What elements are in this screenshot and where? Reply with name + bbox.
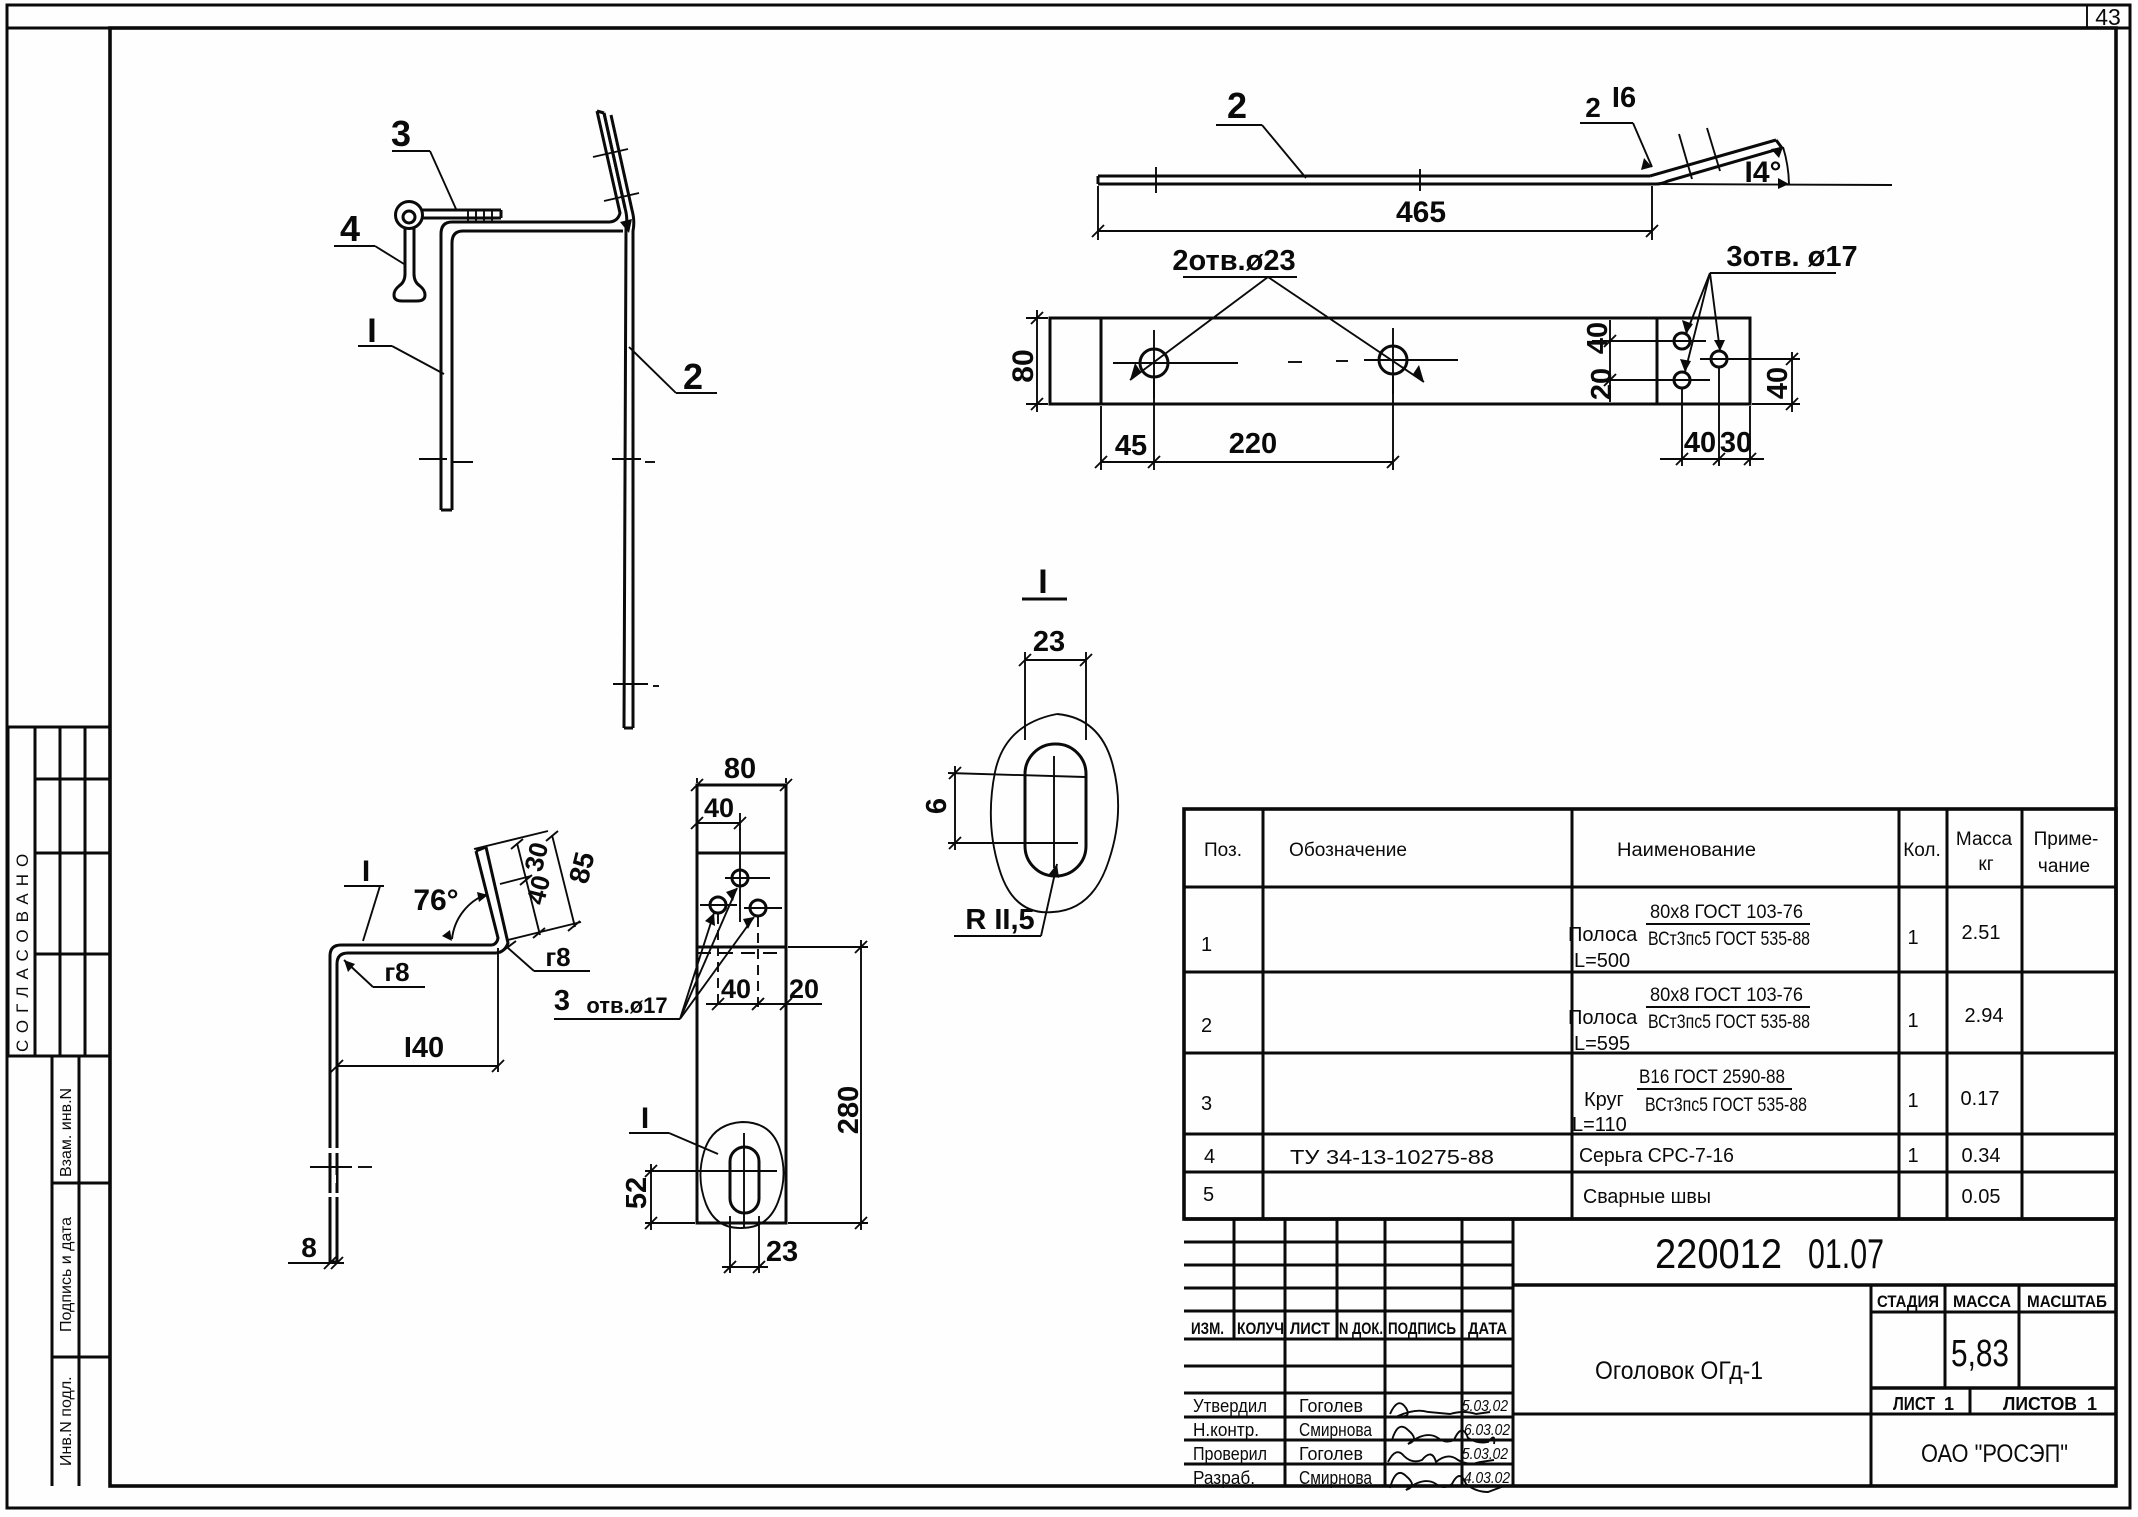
svg-text:1: 1 <box>1907 1090 1918 1112</box>
svg-text:ЛИСТ: ЛИСТ <box>1893 1394 1935 1414</box>
svg-text:ВСт3пс5 ГОСТ 535-88: ВСт3пс5 ГОСТ 535-88 <box>1645 1095 1807 1116</box>
svg-text:N ДОК.: N ДОК. <box>1339 1319 1383 1338</box>
svg-text:СОГЛАСОВАНО: СОГЛАСОВАНО <box>13 847 32 1052</box>
svg-text:40: 40 <box>1762 367 1794 399</box>
svg-text:8: 8 <box>301 1232 317 1263</box>
svg-text:40: 40 <box>1582 322 1614 354</box>
svg-text:2.94: 2.94 <box>1965 1005 2004 1027</box>
svg-text:Полоса: Полоса <box>1568 924 1638 946</box>
svg-text:01.07: 01.07 <box>1808 1230 1884 1277</box>
svg-text:4: 4 <box>340 208 360 249</box>
svg-text:5,83: 5,83 <box>1951 1333 2009 1375</box>
svg-text:ДАТА: ДАТА <box>1468 1319 1507 1338</box>
svg-text:1: 1 <box>1907 1145 1918 1167</box>
svg-text:30: 30 <box>1720 427 1752 459</box>
svg-text:L=595: L=595 <box>1574 1033 1630 1055</box>
svg-text:КОЛУЧ: КОЛУЧ <box>1237 1319 1284 1338</box>
svg-text:0.34: 0.34 <box>1962 1145 2001 1167</box>
svg-text:I: I <box>1038 563 1047 601</box>
svg-text:0.05: 0.05 <box>1962 1186 2001 1208</box>
svg-text:г8: г8 <box>545 942 570 972</box>
svg-text:3: 3 <box>1201 1093 1212 1115</box>
svg-text:1: 1 <box>1907 927 1918 949</box>
svg-text:Инв.N подл.: Инв.N подл. <box>58 1376 75 1466</box>
svg-text:80х8 ГОСТ 103-76: 80х8 ГОСТ 103-76 <box>1650 902 1803 923</box>
svg-text:1: 1 <box>1907 1010 1918 1032</box>
svg-text:I6: I6 <box>1612 82 1636 114</box>
svg-text:40: 40 <box>1684 427 1716 459</box>
svg-text:ВСт3пс5 ГОСТ 535-88: ВСт3пс5 ГОСТ 535-88 <box>1648 929 1810 950</box>
svg-text:Обозначение: Обозначение <box>1289 840 1407 861</box>
svg-text:2: 2 <box>1585 92 1601 123</box>
svg-text:I: I <box>641 1102 649 1135</box>
svg-text:2: 2 <box>683 356 703 397</box>
svg-text:МАССА: МАССА <box>1953 1292 2011 1311</box>
svg-text:2отв.ø23: 2отв.ø23 <box>1172 245 1295 277</box>
svg-text:Гоголев: Гоголев <box>1299 1396 1363 1416</box>
svg-text:Наименование: Наименование <box>1617 840 1756 861</box>
svg-text:43: 43 <box>2095 4 2121 30</box>
svg-text:45: 45 <box>1115 430 1147 462</box>
svg-text:чание: чание <box>2038 856 2090 877</box>
svg-text:23: 23 <box>1033 626 1065 658</box>
svg-text:1: 1 <box>1944 1394 1954 1414</box>
svg-text:Сварные швы: Сварные швы <box>1583 1186 1711 1208</box>
svg-text:L=110: L=110 <box>1572 1114 1627 1136</box>
svg-text:ПОДПИСЬ: ПОДПИСЬ <box>1388 1319 1456 1338</box>
svg-text:Гоголев: Гоголев <box>1299 1444 1363 1464</box>
svg-text:ОАО "РОСЭП": ОАО "РОСЭП" <box>1921 1440 2068 1468</box>
svg-text:2.51: 2.51 <box>1962 922 2001 944</box>
svg-text:ВСт3пс5 ГОСТ 535-88: ВСт3пс5 ГОСТ 535-88 <box>1648 1012 1810 1033</box>
svg-text:4.03.02: 4.03.02 <box>1464 1470 1510 1487</box>
svg-text:1: 1 <box>1201 934 1212 956</box>
svg-text:Масса: Масса <box>1956 829 2013 850</box>
svg-text:отв.ø17: отв.ø17 <box>586 993 667 1018</box>
svg-text:L=500: L=500 <box>1574 950 1630 972</box>
svg-text:ЛИСТОВ: ЛИСТОВ <box>2003 1394 2077 1414</box>
svg-text:80х8 ГОСТ 103-76: 80х8 ГОСТ 103-76 <box>1650 985 1803 1006</box>
svg-text:R II,5: R II,5 <box>965 904 1034 936</box>
svg-text:ЛИСТ: ЛИСТ <box>1290 1319 1331 1338</box>
svg-text:кг: кг <box>1978 854 1993 875</box>
svg-text:6.03.02: 6.03.02 <box>1464 1422 1510 1439</box>
svg-text:23: 23 <box>766 1236 798 1268</box>
svg-text:Утвердил: Утвердил <box>1193 1396 1267 1416</box>
svg-text:г8: г8 <box>384 957 409 987</box>
svg-text:220: 220 <box>1229 428 1277 460</box>
svg-text:4: 4 <box>1204 1146 1215 1168</box>
svg-text:0.17: 0.17 <box>1961 1088 2000 1110</box>
svg-text:Круг: Круг <box>1584 1089 1624 1111</box>
svg-text:Смирнова: Смирнова <box>1299 1468 1373 1488</box>
svg-text:2: 2 <box>1227 85 1247 126</box>
svg-text:В16 ГОСТ 2590-88: В16 ГОСТ 2590-88 <box>1639 1067 1785 1088</box>
svg-text:3: 3 <box>391 113 411 154</box>
svg-text:Взам. инв.N: Взам. инв.N <box>58 1088 75 1177</box>
svg-text:I40: I40 <box>404 1032 444 1064</box>
svg-text:3: 3 <box>554 985 570 1017</box>
svg-text:20: 20 <box>789 974 819 1004</box>
svg-text:Кол.: Кол. <box>1903 840 1941 861</box>
svg-text:465: 465 <box>1396 196 1446 229</box>
svg-text:Смирнова: Смирнова <box>1299 1420 1373 1440</box>
svg-text:Н.контр.: Н.контр. <box>1193 1420 1259 1440</box>
svg-text:80: 80 <box>1007 349 1040 382</box>
svg-text:220012: 220012 <box>1655 1230 1782 1277</box>
svg-text:Серьга СРС-7-16: Серьга СРС-7-16 <box>1579 1145 1734 1167</box>
svg-text:280: 280 <box>833 1086 865 1134</box>
svg-text:Оголовок ОГд-1: Оголовок ОГд-1 <box>1595 1357 1763 1385</box>
svg-text:I: I <box>367 312 376 350</box>
svg-text:ТУ 34-13-10275-88: ТУ 34-13-10275-88 <box>1290 1147 1494 1169</box>
svg-text:Подпись и дата: Подпись и дата <box>58 1217 75 1332</box>
svg-text:Приме-: Приме- <box>2034 829 2099 850</box>
svg-text:3отв. ø17: 3отв. ø17 <box>1726 241 1857 273</box>
svg-text:Проверил: Проверил <box>1193 1444 1267 1464</box>
svg-text:80: 80 <box>724 753 756 785</box>
svg-text:5: 5 <box>1203 1184 1214 1206</box>
svg-text:Разраб.: Разраб. <box>1193 1468 1255 1488</box>
svg-text:40: 40 <box>704 793 734 823</box>
svg-text:Полоса: Полоса <box>1568 1007 1638 1029</box>
svg-text:2: 2 <box>1201 1015 1212 1037</box>
svg-text:Поз.: Поз. <box>1204 840 1242 861</box>
svg-text:1: 1 <box>2087 1394 2097 1414</box>
svg-text:МАСШТАБ: МАСШТАБ <box>2027 1292 2107 1311</box>
svg-text:I4°: I4° <box>1744 156 1781 189</box>
svg-text:I: I <box>362 855 370 888</box>
svg-text:ИЗМ.: ИЗМ. <box>1191 1319 1224 1338</box>
svg-text:76°: 76° <box>413 884 458 917</box>
svg-text:6: 6 <box>921 798 953 814</box>
svg-text:20: 20 <box>1586 368 1618 400</box>
svg-text:52: 52 <box>621 1177 653 1209</box>
svg-text:40: 40 <box>721 974 751 1004</box>
svg-text:СТАДИЯ: СТАДИЯ <box>1877 1292 1939 1311</box>
